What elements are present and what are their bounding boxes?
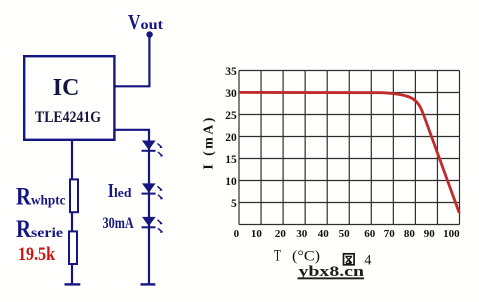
chart grid [239,71,460,225]
svg-text:IC: IC [53,75,80,101]
svg-text:Rwhptc: Rwhptc [16,184,66,211]
y-axis labels [225,66,237,210]
resistor R1 Rwhptc [70,179,78,212]
wire: left branch from IC bottom to ground [71,140,73,284]
x-axis labels [234,228,461,240]
svg-text:4: 4 [364,253,371,269]
svg-text:Rserie: Rserie [16,216,63,243]
svg-text:20: 20 [275,228,287,240]
svg-text:10: 10 [225,176,237,188]
svg-text:30: 30 [225,88,237,100]
op-amp U1: IC box TLE4241G [24,56,114,140]
svg-text:35: 35 [225,66,237,78]
svg-text:(°C): (°C) [292,249,320,265]
svg-text:40: 40 [318,228,330,240]
wire: LED branch from IC right edge down to ground [115,130,150,284]
svg-text:30: 30 [296,228,308,240]
node Vout terminal dot [146,31,152,37]
LED D2 [142,183,163,199]
wire: Vout net (IC right edge up to Vout terminal) [115,35,150,87]
svg-text:15: 15 [225,154,237,166]
LED D3 [142,217,163,233]
svg-text:Iled: Iled [108,181,132,202]
svg-text:0: 0 [234,228,240,240]
ground (left branch) [65,283,81,285]
LED D1 [142,141,163,157]
svg-text:30mA: 30mA [103,215,135,232]
svg-text:50: 50 [339,228,351,240]
svg-text:20: 20 [225,132,237,144]
resistor R2 Rserie [69,231,77,264]
svg-text:T: T [274,248,281,265]
svg-text:19.5k: 19.5k [18,245,56,265]
svg-text:60: 60 [364,228,376,240]
svg-text:Vout: Vout [128,10,164,34]
svg-text:80: 80 [404,228,416,240]
label figure 4 [344,254,355,265]
svg-text:5: 5 [231,198,237,210]
svg-text:TLE4241G: TLE4241G [35,108,101,126]
svg-text:25: 25 [225,110,237,122]
svg-text:10: 10 [251,228,263,240]
svg-text:100: 100 [443,228,460,240]
svg-text:90: 90 [424,228,436,240]
svg-text:70: 70 [384,228,396,240]
curve I vs T [239,92,459,213]
svg-text:I (mA): I (mA) [201,115,216,169]
ground (LED branch) [141,283,156,285]
